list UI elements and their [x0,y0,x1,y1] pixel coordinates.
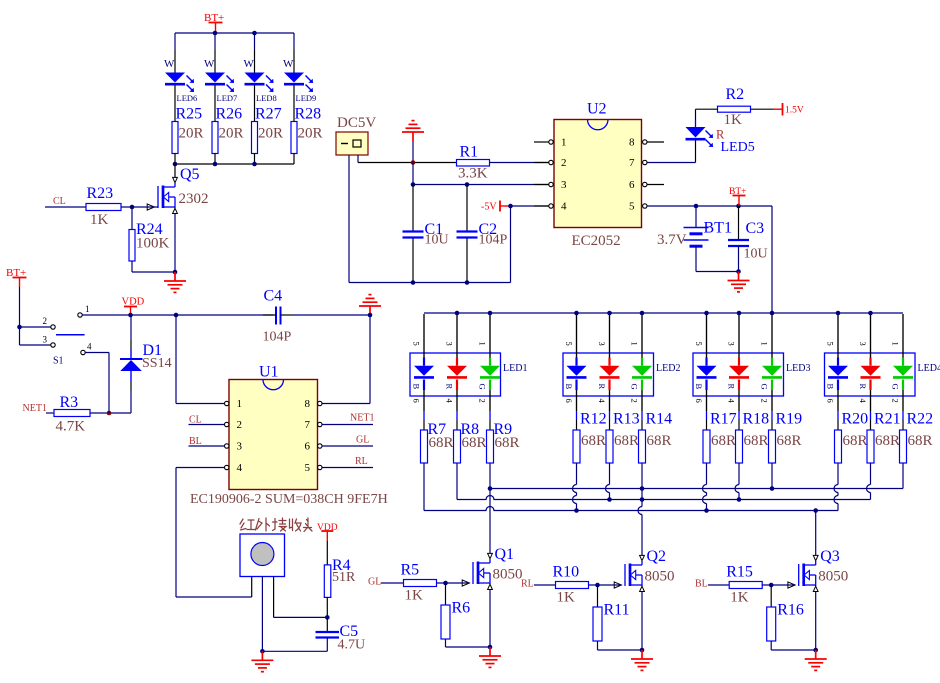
wire: R19 bottom to bus1 [771,463,773,489]
IR receiver body [240,534,285,577]
svg-text:W: W [244,58,255,70]
svg-text:20R: 20R [219,126,244,142]
svg-text:G: G [478,384,488,390]
wire: R6 bottom to source/ground [445,639,447,647]
node: C3 junction [736,204,741,209]
svg-text:U2: U2 [587,101,607,118]
svg-text:Q5: Q5 [180,166,200,183]
node: S1 pin2 branch [17,325,22,330]
wire: pin3 row to C1/C2 tops [412,163,414,185]
pin 8 of U1 [318,401,322,405]
svg-text:R11: R11 [604,602,630,619]
resistor R6 [445,583,447,605]
node: IR ground junction [260,649,265,654]
wire: R21 bottom to bus2 (hops bus1) [870,463,872,485]
node: -5V junction [508,204,513,209]
wire: S1 pin 1 to VDD rail [82,314,273,316]
svg-text:LED3: LED3 [786,363,810,374]
node: bus junction x=609.5 [607,311,612,316]
svg-text:3: 3 [43,335,48,345]
diode LED2-R [608,358,610,366]
diode LED1-G [489,358,491,366]
wire: BT+ down to S1 pins 2,3 [19,287,21,345]
svg-text:W: W [204,58,215,70]
svg-text:R5: R5 [401,562,420,579]
wire: LED3 B anode stub [706,314,708,358]
wire: Q3 source down [815,592,817,651]
svg-text:LED5: LED5 [721,140,755,155]
wire: LED4 G anode stub [902,314,904,358]
svg-text:3: 3 [237,441,243,453]
svg-text:7: 7 [305,419,311,431]
wire: R22 bottom to bus1 [902,463,904,489]
node: U1 pin1 column junction [174,313,179,318]
resistor R16 [770,585,772,607]
power port 1.5V [751,108,774,110]
svg-text:10U: 10U [425,233,449,248]
svg-text:3: 3 [445,342,455,346]
svg-text:R: R [597,384,607,390]
wire: LED4 B cathode stub [837,390,839,411]
diode LED2-G [641,358,643,366]
wire: R7 bottom to bus3 [423,463,425,511]
svg-text:U1: U1 [259,364,279,381]
wire: R20 bottom to bus3 (hops bus1,bus2) [837,463,839,485]
diode LED9 (white LED) [284,73,304,83]
svg-text:1K: 1K [730,590,749,606]
wire: green bus (bus1) [490,488,903,490]
wire: LED1 B cathode stub [423,390,425,411]
switch S1 [51,325,55,329]
svg-text:2: 2 [478,399,488,403]
svg-text:R10: R10 [553,564,580,581]
svg-text:EC190906-2 SUM=038CH 9FE7H: EC190906-2 SUM=038CH 9FE7H [190,492,388,507]
wire: S1 pin 4 down to R3 [85,352,109,354]
svg-text:B: B [826,384,836,390]
pin 6 of U1 [318,444,322,448]
wire: R18 bottom to bus2 (hops bus1) [738,463,740,485]
svg-text:G: G [891,384,901,390]
pin 4 of U2 [534,205,549,207]
diode LED4-G [902,358,904,366]
svg-text:GL: GL [356,435,369,446]
svg-text:6: 6 [694,399,704,403]
node: R3/S1 pin4 junction [107,411,112,416]
svg-text:SS14: SS14 [142,356,172,371]
svg-text:7: 7 [629,157,635,169]
wire: LED9 cathode to R28 [293,86,295,122]
svg-text:68R: 68R [614,433,639,449]
wire: R28 bottom to drain bus [293,154,295,165]
svg-text:68R: 68R [711,433,736,449]
pin 2 of U2 [534,162,549,164]
svg-text:2: 2 [630,399,640,403]
wire: R23 to Q5 gate [121,206,158,208]
svg-text:8: 8 [305,398,311,410]
pin 2 of U1 [225,422,229,426]
node: source/ground junction [640,648,645,653]
wire: R17 bottom to bus3 (hops bus1,bus2) [706,463,708,485]
svg-text:RL: RL [355,456,368,467]
resistor R8 68R [454,430,461,463]
pin 5 of U1 [318,465,322,469]
wire: R5 to Q1 gate [437,582,470,584]
svg-text:-5V: -5V [481,202,497,213]
svg-text:G: G [630,384,640,390]
node: gate/R11 junction [595,583,600,588]
transistor Q2 8050 (MOSFET) [614,555,644,591]
svg-text:LED1: LED1 [503,363,527,374]
wire: LED7 cathode to R26 [214,86,216,122]
op-amp U2 EC2052 (8-pin IC) [554,120,642,228]
wire: -5V junction to U2 pin 4 [511,205,550,207]
svg-text:BL: BL [695,579,708,590]
svg-text:8050: 8050 [645,569,675,585]
diode LED1-B [423,358,425,366]
svg-text:R: R [858,384,868,390]
wire: Q1 source down [489,590,491,648]
wire: LED1 B anode stub [423,314,425,358]
wire: red bus (bus2) [457,496,871,500]
resistor R21 68R [867,430,874,463]
wire: C4 right to U1 pin 8 riser [293,314,370,316]
ground below C3 [728,272,750,292]
svg-text:2: 2 [237,419,243,431]
svg-text:RL: RL [521,579,534,590]
svg-text:LED8: LED8 [256,93,277,103]
RGB LED package LED2 [563,353,654,396]
svg-text:3: 3 [597,342,607,346]
svg-text:W: W [283,58,294,70]
svg-text:LED6: LED6 [177,93,198,103]
pin 1 of U2 [534,141,549,143]
wire: LED6 cathode to R25 [174,86,176,122]
wire: R15 to Q3 gate [762,584,795,586]
svg-text:68R: 68R [495,435,520,451]
svg-text:R26: R26 [216,106,243,123]
svg-text:3: 3 [727,342,737,346]
ground (inverted) at VDD rail right end [359,295,381,315]
pin 7 of U2 [643,160,647,164]
node: gate/R6 junction [443,581,448,586]
svg-text:Q2: Q2 [647,548,667,565]
wire: R8 bottom to bus2 [456,463,458,500]
svg-text:68R: 68R [843,433,868,449]
transistor Q5 2302 (MOSFET) [174,164,176,178]
wire: R1 to U2 pin 2 [490,162,550,164]
resistor R20 68R [835,430,842,463]
ground below Q3 [805,650,827,670]
svg-text:4: 4 [87,342,92,352]
svg-text:20R: 20R [258,126,283,142]
diode LED4-B [837,358,839,366]
wire: LED2 G cathode stub [641,390,643,411]
resistor R1 3.3K [457,160,490,167]
node: R4/C5/IR junction [325,615,330,620]
svg-text:C3: C3 [746,220,765,237]
wire: LED matrix anode bus (BT+) [424,312,903,314]
pin 3 of U1 [225,444,229,448]
svg-text:R3: R3 [60,394,79,411]
battery BT1 3.7V [695,206,697,228]
pin 7 of U1 [318,422,322,426]
wire: U2 pin 6 stub [647,184,664,186]
wire: R10 to Q2 gate [589,584,622,586]
diode LED1-R [456,358,458,366]
diode D1 SS14 [130,315,132,340]
RGB LED package LED3 [693,353,784,396]
resistor R11 [597,585,599,607]
wire: LED4 R anode stub [870,314,872,358]
svg-text:51R: 51R [332,570,356,585]
wire: LED1 R anode stub [456,314,458,358]
resistor R7 68R [421,430,428,463]
wire: LED2 B anode stub [576,314,578,358]
svg-text:1.5V: 1.5V [785,106,804,116]
svg-text:3.7V: 3.7V [657,232,687,248]
svg-text:1: 1 [630,342,640,346]
svg-text:2302: 2302 [179,191,209,207]
wire: Q3 drain riser from bus3 [813,508,818,513]
svg-text:1K: 1K [557,590,576,606]
wire: LED3 B cathode stub [706,390,708,411]
diode LED2-B [575,358,577,366]
resistor R23 1K [86,204,121,211]
svg-text:6: 6 [305,441,311,453]
wire: R3 to D1 anode [90,412,131,414]
diode LED8 (white LED) [245,73,265,83]
wire: branch LED7 anode [214,33,216,50]
svg-text:5: 5 [412,342,422,346]
node: BT1/C3 ground junction [736,269,741,274]
svg-text:5: 5 [305,462,311,474]
wire: R14 bottom to bus1, Q2 drain riser [641,463,643,489]
svg-text:4: 4 [561,201,567,213]
svg-text:1: 1 [561,137,567,149]
svg-text:5: 5 [826,342,836,346]
wire: LED4 R cathode stub [870,390,872,411]
wire: LED2 G anode stub [641,314,643,358]
node: rail/pin8/ground junction [368,313,373,318]
svg-text:1K: 1K [724,112,743,128]
wire: DC5V pin 2 to R1 row [357,155,359,163]
capacitor C2 104P [466,185,468,231]
ground (inverted) above DC5V junction [402,121,424,141]
svg-text:R28: R28 [295,106,322,123]
svg-text:1: 1 [237,398,243,410]
svg-text:W: W [164,58,175,70]
svg-text:68R: 68R [429,435,454,451]
svg-text:4.7U: 4.7U [338,638,366,653]
node: bus junction x=490 [488,311,493,316]
IR receiver module (red-outline text) [240,518,312,532]
svg-text:R27: R27 [255,106,282,123]
pin 1 of U1 [225,401,229,405]
svg-text:68R: 68R [581,433,606,449]
svg-text:R18: R18 [743,411,770,428]
svg-text:R15: R15 [726,564,753,581]
svg-text:R13: R13 [613,411,640,428]
wire: LED1 G anode stub [489,314,491,358]
RGB LED package LED4 [825,353,916,396]
svg-text:8050: 8050 [493,567,523,583]
svg-text:S1: S1 [53,356,64,367]
wire: DC5V pin 1 down to bottom rail [348,155,350,283]
svg-text:R2: R2 [726,86,745,103]
wire: GL to R5 [381,582,404,584]
svg-text:BT1: BT1 [704,220,732,237]
svg-text:100K: 100K [136,236,170,252]
wire: LED3 G anode stub [771,314,773,358]
diode LED3-G [771,358,773,366]
svg-text:R19: R19 [776,411,803,428]
svg-text:68R: 68R [908,433,933,449]
wire: bottom rail DC5V/C1/C2/-5V [349,282,511,284]
transistor Q1 8050 (MOSFET) [462,553,492,589]
resistor R17 68R [703,430,710,463]
node: C1 top junction [411,182,416,187]
node: junctions on white LED buses [213,31,218,36]
svg-text:8: 8 [629,137,635,149]
svg-text:CL: CL [189,415,202,426]
node: bus junction x=772 [770,311,775,316]
node: junction R1/DC5V [411,160,416,165]
svg-text:C4: C4 [264,288,283,305]
svg-text:LED4: LED4 [918,363,940,374]
svg-text:2: 2 [760,399,770,403]
svg-text:4: 4 [237,462,243,474]
svg-text:104P: 104P [479,233,508,248]
capacitor C1 10U [412,185,414,231]
ground below Q5 [164,272,186,292]
wire: branch LED6 anode [174,33,176,50]
wire: riser down to U1 pin 8 [369,315,371,404]
node: bus junction x=739 [737,311,742,316]
resistor R22 68R [900,430,907,463]
node: bus junction x=870.5 [868,311,873,316]
wire: white LED cathode bus to Q5 drain [175,163,294,165]
svg-text:R22: R22 [907,411,934,428]
svg-text:B: B [694,384,704,390]
svg-text:NET1: NET1 [350,413,374,424]
svg-text:1K: 1K [90,212,109,228]
svg-text:GL: GL [368,577,381,588]
resistor R18 68R [736,430,743,463]
wire: LED3 R cathode stub [738,390,740,411]
svg-text:R23: R23 [87,185,114,202]
svg-text:LED7: LED7 [217,93,238,103]
svg-text:2: 2 [43,316,48,326]
svg-text:10U: 10U [744,247,768,262]
svg-text:1K: 1K [405,588,424,604]
svg-text:3: 3 [561,179,567,191]
svg-text:NET1: NET1 [23,403,47,414]
wire: R2 left to LED5 [696,108,718,110]
node: BT1 junction [694,204,699,209]
svg-text:R: R [727,384,737,390]
svg-text:DC5V: DC5V [337,115,376,131]
node: source/ground junction [488,645,493,650]
resistor R19 68R [769,430,776,463]
svg-text:LED2: LED2 [656,363,680,374]
diode LED3-B [705,358,707,366]
wire: LED1 R cathode stub [456,390,458,411]
svg-text:68R: 68R [875,433,900,449]
wire: LED4 G cathode stub [902,390,904,411]
svg-text:1: 1 [478,342,488,346]
wire: R26 bottom to drain bus [214,154,216,165]
svg-text:R17: R17 [710,411,737,428]
wire: LED2 B cathode stub [576,390,578,411]
wire: R25 bottom to drain bus [174,154,176,165]
svg-text:68R: 68R [647,433,672,449]
pin 5 of U2 [643,204,647,208]
svg-text:Q3: Q3 [820,548,840,565]
node: bus junction x=838 [836,311,841,316]
wire: LED2 R cathode stub [609,390,611,411]
svg-text:R1: R1 [460,144,479,161]
node: Q5 source/R24/ground junction [173,270,178,275]
wire: branch LED8 anode [254,33,256,50]
node: bus junction x=706.5 [704,311,709,316]
wire: U2 pin 8 stub [647,141,664,143]
wire: branch LED9 anode [293,33,295,50]
svg-text:68R: 68R [777,433,802,449]
svg-text:Q1: Q1 [495,546,515,563]
diode LED7 (white LED) [205,73,225,83]
svg-text:8050: 8050 [818,569,848,585]
wire: R13 bottom to bus2 (hops bus1) [609,463,611,485]
svg-text:R6: R6 [452,600,471,617]
svg-text:LED9: LED9 [296,93,317,103]
pin 4 of U1 [225,465,229,469]
RGB LED package LED1 [410,353,501,396]
diode LED6 (white LED) [165,73,185,83]
wire: U1 pin 1 to VDD rail [175,315,177,404]
svg-text:5: 5 [694,342,704,346]
svg-text:6: 6 [629,179,635,191]
wire: R12 bottom to bus3 (hops bus1,bus2) [576,463,578,485]
pin 6 of U2 [643,182,647,186]
op-amp U1 EC190906-2 (8-pin IC) [229,380,318,490]
svg-text:6: 6 [564,399,574,403]
resistor R10 1K [556,582,589,589]
wire: R27 bottom to drain bus [254,154,256,165]
svg-text:R12: R12 [580,411,607,428]
resistor R14 68R [639,430,646,463]
node: gate/R16 junction [769,583,774,588]
svg-text:CL: CL [53,196,66,207]
wire: IR right leg to R4/C5 junction [273,577,275,618]
node: bus junction x=642 [640,311,645,316]
wire: LED4 B anode stub [837,314,839,358]
svg-text:20R: 20R [298,126,323,142]
wire: BT+ feed down to LED matrix bus [771,206,773,313]
wire: RL to R10 [534,584,556,586]
svg-text:68R: 68R [462,435,487,451]
svg-text:5: 5 [629,201,635,213]
wire: U2 pin 5 to BT1/C3/feed [647,205,772,207]
ground below Q1 [479,647,501,667]
svg-text:R16: R16 [777,602,804,619]
resistor R26 20R [212,122,218,154]
ground below Q2 [631,650,653,670]
node: VDD/D1 junction [128,313,133,318]
wire: R9 bottom through buses to Q1 drain [489,463,491,489]
wire: Q2 source down [641,592,643,651]
wire: LED5 cathode to U2 pin 7 [695,141,697,163]
svg-text:68R: 68R [744,433,769,449]
